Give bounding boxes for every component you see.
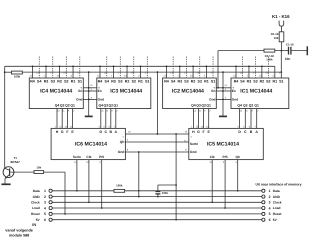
- resistor R17-32: [264, 49, 275, 52]
- node Gnd drop on GND bus: [138, 196, 140, 198]
- wire IC2 R1 pin to reset rail: [205, 66, 207, 78]
- wire IC2 Q3 output drop: [198, 109, 200, 129]
- svg-text:R4: R4: [30, 80, 35, 84]
- node IC2 R1 on rail: [206, 65, 208, 67]
- svg-text:Data: Data: [33, 189, 40, 193]
- node a junction IC4/IC3: [88, 87, 90, 89]
- svg-text:R1: R1: [204, 80, 209, 84]
- svg-text:SerIn: SerIn: [73, 155, 81, 159]
- node gap vertical on +5V rail IC2/IC1: [222, 71, 224, 73]
- svg-text:IC3 MC14044: IC3 MC14044: [110, 89, 142, 95]
- wire 100n to GND bus: [157, 194, 159, 197]
- svg-text:Data: Data: [273, 189, 280, 193]
- wire GND bus: [52, 196, 262, 198]
- wire IC2 R4 pin to reset rail: [166, 66, 168, 78]
- svg-text:Qh: Qh: [120, 140, 125, 144]
- svg-text:S1: S1: [279, 80, 283, 84]
- wire IC2 Q2 output drop: [203, 109, 205, 129]
- svg-text:IC6 MC14014: IC6 MC14014: [75, 142, 107, 148]
- svg-text:Q3: Q3: [196, 104, 201, 108]
- wire T1 base line: [10, 171, 34, 173]
- wire IC1 S2 dashed to key: [267, 57, 269, 79]
- svg-text:10n: 10n: [285, 57, 291, 61]
- svg-text:Gnd: Gnd: [118, 150, 125, 154]
- shift register IC5 MC14014 box: [189, 128, 263, 159]
- svg-text:C1-16: C1-16: [286, 43, 294, 47]
- svg-text:10k: 10k: [36, 165, 41, 169]
- svg-text:5: 5: [44, 212, 46, 216]
- svg-text:SerIn: SerIn: [190, 142, 198, 146]
- svg-text:S3: S3: [184, 80, 188, 84]
- transistor T1 circle: [3, 167, 14, 178]
- svg-text:10k: 10k: [274, 36, 279, 40]
- node line C drop on a stub: [217, 87, 219, 89]
- wire IC2 Q1 output drop: [208, 109, 210, 129]
- node reset tap on Reset bus: [64, 213, 66, 215]
- svg-text:IN: IN: [32, 223, 36, 227]
- node IC5 Clk on Clock bus: [211, 201, 213, 203]
- svg-text:6: 6: [269, 218, 271, 222]
- svg-text:G: G: [61, 130, 64, 134]
- wire IC4 R1 pin to reset rail: [72, 66, 74, 78]
- node 100n on GND bus: [157, 196, 159, 198]
- svg-text:Load: Load: [273, 206, 281, 210]
- svg-text:S2: S2: [132, 80, 136, 84]
- wire IC3 S2 dashed to key: [133, 57, 135, 79]
- wire IC4 S2 dashed to key: [65, 57, 67, 79]
- svg-text:Q1: Q1: [70, 104, 75, 108]
- node IC5 Qh on Data bus: [237, 190, 239, 192]
- wire Data bus left: [52, 190, 114, 192]
- svg-text:Q3: Q3: [104, 104, 109, 108]
- shift register IC6 MC14014 box: [51, 128, 125, 159]
- node Gnd line junction: [138, 151, 140, 153]
- wire IC1 S4 dashed to key: [241, 57, 243, 79]
- node IC6 P/S on Load bus: [101, 207, 103, 209]
- svg-text:R1: R1: [273, 80, 278, 84]
- wire En stub IC4/IC3: [83, 90, 97, 92]
- wire IC2 S4 dashed to key: [172, 57, 174, 79]
- wire IC3 S1 dashed to key: [146, 57, 148, 79]
- svg-text:R2: R2: [57, 80, 62, 84]
- svg-text:3: 3: [269, 201, 271, 205]
- wire Data bus right: [125, 190, 262, 192]
- wire IC4 Q3 output drop: [61, 109, 63, 129]
- wire IC3 R4 pin to reset rail: [99, 66, 101, 78]
- svg-text:R4: R4: [98, 80, 103, 84]
- wire gap vertical IC4/IC3: [88, 72, 90, 116]
- terminal bar right end: [306, 46, 308, 55]
- svg-text:Load: Load: [32, 206, 40, 210]
- wire Reset bus: [52, 213, 262, 215]
- right connector pin 3 circle: [262, 201, 265, 204]
- wire Gnd line drop to GND bus: [138, 152, 140, 197]
- node IC4 R3 on rail: [45, 65, 47, 67]
- wire +5V drop to Vdd line: [156, 72, 158, 134]
- node decoupling stub junction: [175, 184, 177, 186]
- svg-text:S1: S1: [211, 80, 215, 84]
- wire IC3 S3 dashed to key: [119, 57, 121, 79]
- left connector pin 4 circle: [49, 206, 52, 209]
- wire IC6 P/S to Load bus: [101, 160, 103, 208]
- transistor T1 emitter lead: [5, 174, 10, 178]
- svg-text:S4: S4: [171, 80, 175, 84]
- svg-text:4: 4: [44, 206, 46, 210]
- node IC4 R2 on rail: [59, 65, 61, 67]
- left connector pin 6 circle: [49, 218, 52, 221]
- left connector pin 5 circle: [49, 212, 52, 215]
- wire IC3 R1 pin to reset rail: [140, 66, 142, 78]
- wire left rail vertical: [4, 66, 6, 167]
- wire IC3 Q3 output drop: [105, 109, 107, 129]
- svg-text:module 588: module 588: [9, 233, 29, 237]
- svg-text:S4: S4: [37, 80, 41, 84]
- svg-text:Q2: Q2: [201, 104, 206, 108]
- svg-text:IC2 MC14044: IC2 MC14044: [172, 89, 204, 95]
- wire line C left segment: [218, 50, 288, 52]
- svg-text:R3: R3: [44, 80, 49, 84]
- svg-text:Q4: Q4: [99, 104, 104, 108]
- wire IC1 Q2 output drop: [250, 109, 252, 129]
- wire IC1 Q4 output drop: [239, 109, 241, 129]
- capacitor C1-16: [288, 47, 290, 55]
- wire base line to reset tap: [44, 171, 65, 173]
- svg-text:GND: GND: [273, 195, 281, 199]
- svg-text:R1: R1: [138, 80, 143, 84]
- node junction R1-16 / line C: [281, 50, 283, 52]
- node IC1 R3 on rail: [248, 65, 250, 67]
- svg-text:S2: S2: [266, 80, 270, 84]
- node En junction IC4/IC3: [88, 90, 90, 92]
- node IC2 R4 on rail: [166, 65, 168, 67]
- svg-text:Clk: Clk: [86, 155, 91, 159]
- latch IC4 MC14044 box: [29, 78, 83, 109]
- svg-text:Q4: Q4: [191, 104, 196, 108]
- resistor 100k pull (left): [12, 71, 23, 74]
- wire Clock bus: [52, 201, 262, 203]
- node IC2 R3 on rail: [179, 65, 181, 67]
- ground symbol T1: [1, 183, 10, 185]
- wire plug to R1-16: [280, 26, 282, 32]
- node 5V drop on 5V bus: [175, 219, 177, 221]
- wire IC2 S3 dashed to key: [185, 57, 187, 79]
- wire IC1 Q3 output drop: [244, 109, 246, 129]
- svg-text:R1: R1: [71, 80, 76, 84]
- wire En stub IC2/IC1: [216, 90, 231, 92]
- right connector pin 1 circle: [262, 189, 265, 192]
- left connector pin 1 circle: [49, 189, 52, 192]
- resistor 100k data pulldown: [114, 189, 125, 192]
- svg-text:S1: S1: [145, 80, 149, 84]
- wire IC5 Qh to Data bus: [237, 160, 239, 191]
- svg-text:S2: S2: [198, 80, 202, 84]
- wire IC6 SerIn to Data bus: [76, 160, 78, 191]
- node Gnd junction IC4/IC3: [88, 99, 90, 101]
- svg-text:R2: R2: [125, 80, 130, 84]
- wire IC3 Q1 output drop: [115, 109, 117, 129]
- svg-text:IC1 MC14044: IC1 MC14044: [240, 89, 272, 95]
- node IC3 R4 on rail: [99, 65, 101, 67]
- wire IC1 R4 pin to reset rail: [235, 66, 237, 78]
- node Gnd drop on data row: [138, 190, 140, 192]
- svg-text:1: 1: [44, 189, 46, 193]
- wire line C drop to En chain: [217, 51, 219, 88]
- wire IC4 R2 pin to reset rail: [59, 66, 61, 78]
- svg-text:5: 5: [269, 212, 271, 216]
- wire IC4 S4 dashed to key: [38, 57, 40, 79]
- svg-text:BC547: BC547: [11, 160, 21, 164]
- wire IC4 Q4 output drop: [56, 109, 58, 129]
- wire IC2 R2 pin to reset rail: [192, 66, 194, 78]
- svg-text:Clock: Clock: [31, 201, 40, 205]
- svg-text:R4: R4: [164, 80, 169, 84]
- wire IC4 R3 pin to reset rail: [45, 66, 47, 78]
- svg-text:GND: GND: [33, 195, 41, 199]
- wire Qh to SerIn IC6-IC5: [125, 141, 188, 143]
- node IC3 R2 on rail: [126, 65, 128, 67]
- svg-text:IC5 MC14014: IC5 MC14014: [207, 142, 239, 148]
- wire IC4 Q1 output drop: [72, 109, 74, 129]
- node gap vertical on +5V rail IC4/IC3: [88, 71, 90, 73]
- wire Gnd stub IC4/IC3: [83, 98, 97, 100]
- svg-text:1: 1: [269, 189, 271, 193]
- wire IC4 S1 dashed to key: [79, 57, 81, 79]
- wire IC5 P/S to Load bus: [224, 160, 226, 208]
- wire IC1 R1 pin to reset rail: [274, 66, 276, 78]
- svg-text:Uit naar interface of memory: Uit naar interface of memory: [256, 183, 302, 187]
- svg-text:En: En: [232, 89, 236, 93]
- wire 5V bus: [52, 219, 262, 221]
- wire gap vertical IC2/IC1: [222, 72, 224, 116]
- wire IC2 S1 dashed to key: [212, 57, 214, 79]
- svg-text:P/S: P/S: [223, 155, 228, 159]
- wire Load bus: [52, 207, 262, 209]
- svg-text:S4: S4: [105, 80, 109, 84]
- wire IC3 Q2 output drop: [110, 109, 112, 129]
- right connector pin 2 circle: [262, 195, 265, 198]
- svg-text:+: +: [190, 135, 192, 139]
- node IC4 R4 on rail: [32, 65, 34, 67]
- svg-text:Q3: Q3: [60, 104, 65, 108]
- svg-text:R3: R3: [247, 80, 252, 84]
- node Gnd junction IC2/IC1: [222, 99, 224, 101]
- svg-text:En: En: [78, 89, 82, 93]
- svg-text:Gnd: Gnd: [232, 98, 238, 102]
- svg-text:R3: R3: [111, 80, 116, 84]
- wire a stub IC2/IC1: [216, 87, 231, 89]
- wire IC1 S3 dashed to key: [254, 57, 256, 79]
- svg-text:Reset: Reset: [273, 212, 283, 216]
- right connector pin 5 circle: [262, 212, 265, 215]
- svg-text:Gnd: Gnd: [209, 98, 215, 102]
- right connector pin 6 circle: [262, 218, 265, 221]
- node IC3 R3 on rail: [113, 65, 115, 67]
- svg-text:100n: 100n: [162, 191, 169, 195]
- svg-text:R3: R3: [177, 80, 182, 84]
- wire Vdd pin16 line IC6-IC5: [125, 133, 188, 135]
- wire IC6 Clk to Clock bus: [88, 160, 90, 203]
- node IC1 R2 on rail: [261, 65, 263, 67]
- svg-text:K1 - K16: K1 - K16: [272, 14, 290, 19]
- node IC1 R4 on rail: [235, 65, 237, 67]
- svg-text:Q2: Q2: [109, 104, 114, 108]
- latch IC2 MC14044 box: [163, 78, 217, 109]
- node En junction IC2/IC1: [222, 90, 224, 92]
- svg-text:S1: S1: [78, 80, 82, 84]
- svg-text:En: En: [211, 89, 215, 93]
- svg-text:Clk: Clk: [210, 155, 215, 159]
- resistor R1-16: [279, 32, 284, 42]
- wire a stub IC4/IC3: [83, 87, 97, 89]
- left connector pin 2 circle: [49, 195, 52, 198]
- svg-text:S3: S3: [253, 80, 257, 84]
- svg-text:6: 6: [44, 218, 46, 222]
- transistor T1 collector lead: [4, 167, 6, 168]
- right connector pin 4 circle: [262, 206, 265, 209]
- wire 5V drop vertical: [175, 134, 177, 220]
- svg-text:100k: 100k: [14, 75, 21, 79]
- wire R1-16 to node: [280, 42, 282, 51]
- left connector pin 3 circle: [49, 201, 52, 204]
- capacitor 100n: [155, 191, 160, 193]
- svg-text:Q1: Q1: [206, 104, 211, 108]
- wire IC4 Q2 output drop: [66, 109, 68, 129]
- svg-text:Reset: Reset: [31, 212, 41, 216]
- wire Gnd stub IC2/IC1: [216, 98, 231, 100]
- node a junction IC2/IC1: [222, 87, 224, 89]
- wire IC4 S3 dashed to key: [52, 57, 54, 79]
- svg-text:G: G: [197, 130, 200, 134]
- svg-text:100k: 100k: [266, 58, 273, 62]
- node Vdd line / rail drop: [157, 133, 159, 135]
- wire IC1 R3 pin to reset rail: [248, 66, 250, 78]
- svg-text:R4: R4: [234, 80, 239, 84]
- ground symbol IC2/IC1: [219, 115, 227, 117]
- svg-text:Clock: Clock: [273, 201, 282, 205]
- svg-text:Q4: Q4: [55, 104, 60, 108]
- svg-text:2: 2: [44, 195, 46, 199]
- wire decoupling stub: [158, 184, 176, 186]
- svg-text:Q2: Q2: [65, 104, 70, 108]
- node IC6 Clk on Clock bus: [88, 201, 90, 203]
- node Vdd line / 5V drop: [175, 133, 177, 135]
- svg-text:vanaf volgende: vanaf volgende: [5, 229, 33, 233]
- wire IC1 S1 pin to key node (solid): [280, 51, 282, 78]
- wire IC3 R3 pin to reset rail: [113, 66, 115, 78]
- wire line B (+5V rail): [22, 71, 281, 73]
- node IC6 SerIn on Data bus: [76, 190, 78, 192]
- svg-text:En: En: [98, 89, 102, 93]
- svg-text:3: 3: [44, 201, 46, 205]
- wire reset tap vertical: [64, 172, 66, 214]
- wire line B left: [5, 71, 12, 73]
- wire IC1 Q1 output drop: [256, 109, 258, 129]
- resistor 10k base: [34, 171, 44, 174]
- svg-text:S3: S3: [118, 80, 122, 84]
- wire IC4 R4 pin to reset rail: [32, 66, 34, 78]
- svg-text:Q1: Q1: [114, 104, 119, 108]
- svg-text:2: 2: [269, 195, 271, 199]
- wire IC5 Clk to Clock bus: [211, 160, 213, 203]
- svg-text:Q3: Q3: [243, 104, 248, 108]
- node +5V drop on line B: [157, 71, 159, 73]
- svg-text:Q1: Q1: [254, 104, 259, 108]
- wire IC3 R2 pin to reset rail: [126, 66, 128, 78]
- svg-text:4: 4: [269, 206, 271, 210]
- wire IC2 R3 pin to reset rail: [179, 66, 181, 78]
- svg-text:S2: S2: [64, 80, 68, 84]
- wire Gnd line IC6-IC5: [125, 151, 188, 153]
- wire IC3 S4 dashed to key: [106, 57, 108, 79]
- svg-text:Gnd: Gnd: [76, 98, 82, 102]
- svg-text:Q2: Q2: [249, 104, 254, 108]
- latch IC3 MC14044 box: [97, 78, 151, 109]
- svg-text:P/S: P/S: [99, 155, 104, 159]
- node IC5 P/S on Load bus: [224, 207, 226, 209]
- node IC2 R2 on rail: [192, 65, 194, 67]
- svg-text:S3: S3: [51, 80, 55, 84]
- node rail/line B junction: [4, 71, 6, 73]
- node line B end at S1 key line: [280, 71, 282, 73]
- node IC3 R1 on rail: [140, 65, 142, 67]
- svg-text:Q4: Q4: [237, 104, 242, 108]
- svg-text:S4: S4: [240, 80, 244, 84]
- wire IC1 R2 pin to reset rail: [261, 66, 263, 78]
- transistor T1 base bar: [9, 169, 11, 176]
- svg-text:R2: R2: [260, 80, 265, 84]
- svg-text:Gnd: Gnd: [98, 98, 104, 102]
- svg-text:IC4 MC14044: IC4 MC14044: [40, 89, 72, 95]
- svg-text:Gnd: Gnd: [190, 150, 197, 154]
- svg-text:Qh: Qh: [235, 155, 239, 159]
- node IC4 R1 on rail: [72, 65, 74, 67]
- connector K1-K16 plug symbol: [279, 21, 284, 27]
- wire IC3 Q4 output drop: [100, 109, 102, 129]
- ground symbol IC4/IC3: [85, 115, 93, 117]
- svg-text:+: +: [122, 135, 124, 139]
- wire line C right segment: [291, 50, 307, 52]
- svg-text:R2: R2: [191, 80, 196, 84]
- wire rail line A (reset rail): [5, 65, 275, 67]
- latch IC1 MC14044 box: [231, 78, 289, 109]
- wire IC2 Q4 output drop: [192, 109, 194, 129]
- wire IC2 S2 dashed to key: [199, 57, 201, 79]
- svg-text:100k: 100k: [116, 184, 123, 188]
